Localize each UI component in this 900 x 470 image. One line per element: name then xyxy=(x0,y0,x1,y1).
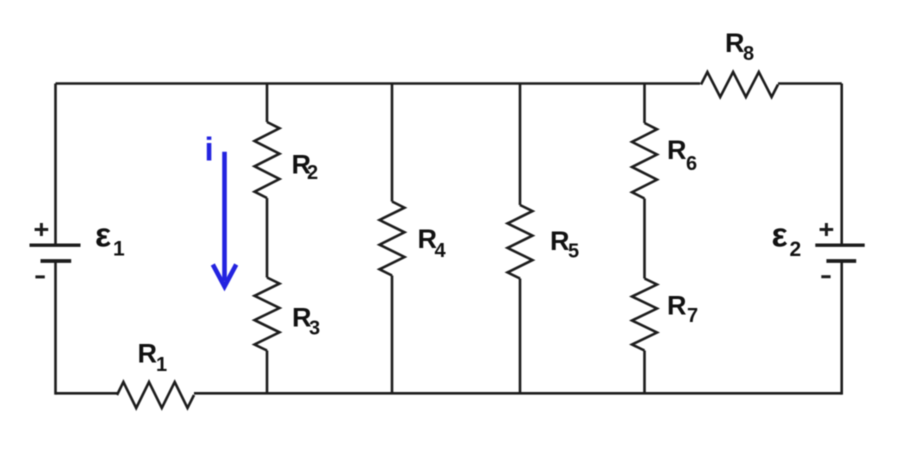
svg-text:R: R xyxy=(667,291,687,321)
battery E1 short plate xyxy=(41,259,72,263)
plus sign E1 xyxy=(35,223,49,236)
svg-text:4: 4 xyxy=(435,240,447,262)
wire right upper xyxy=(840,84,843,245)
wire branch2 top xyxy=(391,84,394,202)
wire branch4 bottom xyxy=(643,351,646,394)
svg-text:1: 1 xyxy=(156,354,167,376)
plus sign E2 xyxy=(820,223,834,236)
resistor R8 xyxy=(701,72,778,97)
resistor R3 xyxy=(255,278,280,351)
battery E2 short plate xyxy=(826,259,856,263)
wire branch4 middle xyxy=(643,199,646,279)
svg-text:2: 2 xyxy=(307,162,318,184)
svg-text:3: 3 xyxy=(309,318,320,340)
svg-text:ε: ε xyxy=(95,217,111,255)
wire top right segment xyxy=(778,82,842,85)
svg-text:2: 2 xyxy=(790,238,802,261)
resistor R4 xyxy=(380,202,405,276)
resistor R2 xyxy=(255,122,280,198)
wire branch1 top xyxy=(266,84,269,123)
minus sign E1 xyxy=(35,275,44,278)
current arrow i xyxy=(213,152,236,287)
wire bottom right of R1 xyxy=(194,392,842,395)
svg-text:8: 8 xyxy=(743,43,754,65)
wire left upper xyxy=(54,84,57,245)
resistor R7 xyxy=(632,279,657,351)
resistor R1 xyxy=(117,382,194,408)
svg-text:R: R xyxy=(667,135,687,165)
svg-text:i: i xyxy=(205,131,214,168)
svg-text:ε: ε xyxy=(772,217,788,255)
wire branch4 top xyxy=(643,84,646,124)
wire right lower xyxy=(840,263,843,395)
svg-text:R: R xyxy=(550,226,570,256)
wire branch1 bottom xyxy=(266,351,269,394)
resistor R5 xyxy=(508,205,533,279)
wire branch1 middle xyxy=(266,198,269,278)
battery E1 long plate xyxy=(30,243,81,246)
svg-text:5: 5 xyxy=(568,241,579,263)
wire branch3 top xyxy=(519,84,522,206)
resistor R6 xyxy=(632,123,657,199)
svg-text:1: 1 xyxy=(113,238,125,261)
svg-text:R: R xyxy=(725,28,745,58)
minus sign E2 xyxy=(821,275,830,278)
wire bottom left of R1 xyxy=(56,392,118,395)
svg-text:6: 6 xyxy=(686,153,697,175)
wire branch3 bottom xyxy=(519,279,522,394)
wire left lower xyxy=(54,263,57,395)
battery E2 long plate xyxy=(815,243,864,246)
wire branch2 bottom xyxy=(391,276,394,394)
svg-text:7: 7 xyxy=(687,305,698,327)
svg-text:R: R xyxy=(138,339,158,369)
wire top left segment xyxy=(56,82,701,85)
